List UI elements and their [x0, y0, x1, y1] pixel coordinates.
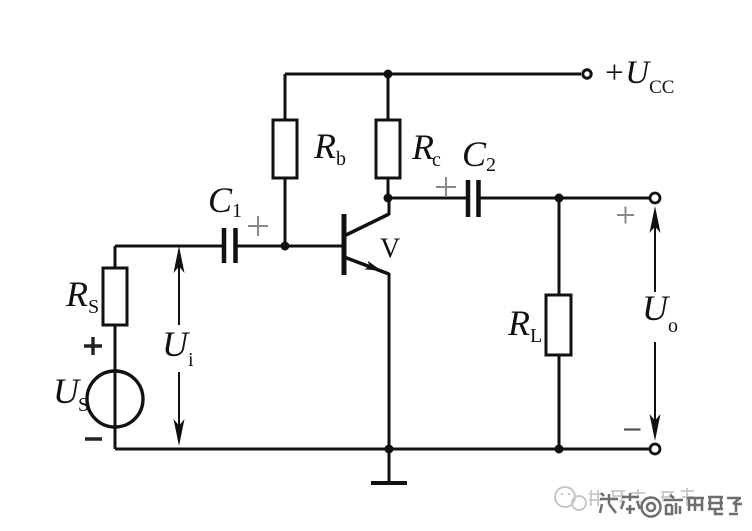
ground — [371, 449, 407, 483]
arrow Uo — [650, 206, 661, 441]
plus sign Us — [84, 337, 102, 355]
node RL top junction — [555, 194, 564, 203]
resistor Rb — [273, 74, 297, 246]
svg-text:+UCC: +UCC — [603, 55, 674, 98]
svg-text:RS: RS — [65, 274, 99, 318]
wire input branch top — [114, 246, 117, 268]
resistor Rc — [376, 74, 400, 198]
svg-text:US: US — [53, 371, 89, 416]
node collector junction — [384, 194, 393, 203]
plus sign C1 — [248, 216, 268, 236]
wire C2 to output terminal — [479, 197, 651, 200]
arrow Ui — [174, 246, 185, 446]
resistor RL — [546, 198, 571, 449]
plus sign C2 — [436, 177, 456, 197]
terminal output top — [650, 193, 660, 203]
minus sign Us — [85, 437, 102, 440]
node ground junction — [385, 445, 394, 454]
capacitor C2 — [468, 180, 479, 217]
wire base left segment — [115, 245, 222, 248]
svg-text:Rb: Rb — [313, 126, 346, 170]
watermark light text — [589, 488, 694, 506]
node base junction — [281, 242, 290, 251]
wire collector to C2 — [388, 197, 466, 200]
wire bottom rail — [115, 448, 650, 451]
node top rail junction — [384, 70, 393, 79]
svg-text:Uo: Uo — [642, 288, 678, 337]
svg-text:Rc: Rc — [411, 127, 441, 171]
svg-text:Ui: Ui — [162, 324, 194, 371]
source Us — [87, 371, 143, 427]
resistor Rs — [103, 268, 127, 449]
capacitor C1 — [224, 228, 236, 263]
svg-text:RL: RL — [507, 303, 542, 347]
svg-text:C2: C2 — [462, 134, 496, 176]
terminal +Ucc — [583, 70, 591, 78]
watermark wechat icon — [555, 487, 586, 510]
transistor V — [344, 198, 389, 449]
minus sign output — [624, 428, 641, 430]
wire base right segment — [236, 245, 345, 248]
svg-text:V: V — [380, 234, 400, 265]
wire top supply rail — [285, 73, 581, 76]
node RL bottom junction — [555, 445, 564, 454]
plus sign output — [617, 207, 634, 224]
svg-text:C1: C1 — [208, 180, 242, 222]
terminal output bottom — [650, 444, 660, 454]
